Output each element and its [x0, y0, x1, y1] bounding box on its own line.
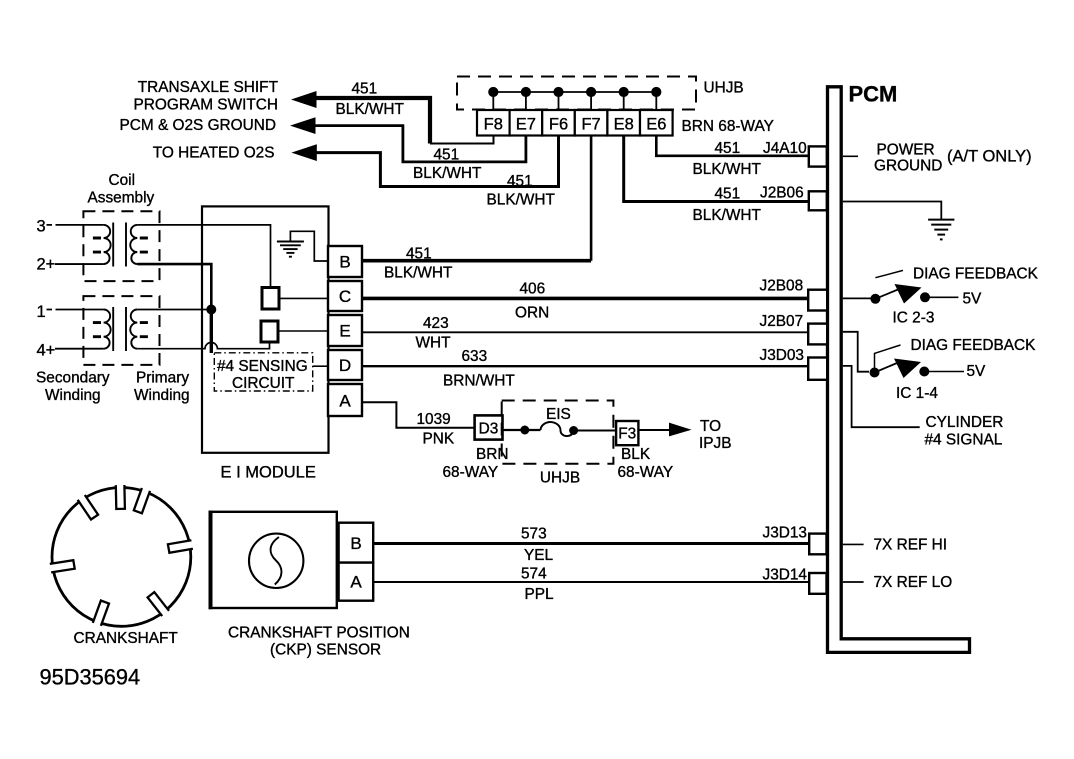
node dot left	[870, 294, 880, 304]
svg-text:BLK/WHT: BLK/WHT	[693, 207, 762, 224]
arrow to transaxle shift program switch	[291, 91, 317, 108]
svg-text:Coil: Coil	[109, 172, 136, 189]
svg-text:BRN/WHT: BRN/WHT	[443, 373, 515, 390]
svg-text:ORN: ORN	[515, 305, 549, 322]
svg-text:D: D	[339, 356, 351, 375]
core lines (upper)	[112, 223, 114, 267]
wire junction down to #4 sensing circuit	[210, 310, 213, 354]
wire 3 to secondary winding	[47, 224, 104, 226]
svg-text:451: 451	[507, 173, 533, 190]
svg-text:BLK/WHT: BLK/WHT	[487, 192, 556, 209]
wire 451 from E7 to PCM & O2S ground arrow	[314, 126, 526, 162]
svg-text:PNK: PNK	[423, 431, 455, 448]
svg-text:F8: F8	[484, 116, 503, 134]
wire driver 2 to E	[278, 330, 328, 332]
svg-text:PCM: PCM	[849, 82, 898, 107]
svg-text:574: 574	[521, 566, 547, 583]
svg-text:J4A10: J4A10	[763, 140, 807, 157]
svg-text:BLK/WHT: BLK/WHT	[693, 161, 762, 178]
svg-text:EIS: EIS	[546, 406, 571, 423]
svg-text:7X REF LO: 7X REF LO	[874, 574, 953, 591]
svg-text:CYLINDER: CYLINDER	[926, 414, 1004, 431]
secondary winding (upper)	[104, 225, 111, 264]
svg-text:Primary: Primary	[136, 370, 189, 387]
crankshaft reluctor wheel	[52, 488, 191, 627]
fuse terminal D3	[475, 415, 503, 439]
svg-text:C: C	[339, 287, 351, 306]
svg-text:Winding: Winding	[45, 387, 101, 404]
IC 1-4 node dot left	[870, 368, 880, 378]
svg-text:CRANKSHAFT: CRANKSHAFT	[74, 630, 179, 647]
svg-text:(A/T ONLY): (A/T ONLY)	[947, 148, 1032, 166]
node dot right	[919, 367, 929, 377]
connector J2B06	[809, 191, 827, 210]
svg-text:F6: F6	[549, 116, 568, 134]
wheel slot 6	[93, 601, 109, 626]
wire 4+ primary with hop to driver 2	[137, 342, 269, 349]
coil driver 1	[262, 288, 279, 310]
primary winding (upper)	[130, 225, 137, 264]
terminal C	[328, 281, 362, 311]
wire 1 primary to junction dot	[137, 309, 211, 311]
svg-text:PCM & O2S GROUND: PCM & O2S GROUND	[120, 117, 277, 134]
wire 3 primary to EI module driver	[137, 225, 270, 288]
terminal E	[328, 315, 362, 346]
svg-text:IC 1-4: IC 1-4	[896, 385, 938, 402]
wire 451 from F6 to heated O2S arrow	[315, 134, 559, 187]
fuse terminal F3	[616, 421, 638, 445]
svg-text:BLK: BLK	[621, 446, 651, 463]
wire driver 1 to C	[279, 297, 328, 299]
svg-text:633: 633	[462, 348, 488, 365]
svg-text:J2B06: J2B06	[760, 185, 804, 202]
bus wire joining connector dots	[493, 91, 656, 93]
wire 1039 A to D3	[362, 402, 475, 427]
coil assembly 2 dashed box	[83, 296, 159, 365]
svg-text:TRANSAXLE SHIFT: TRANSAXLE SHIFT	[138, 79, 279, 96]
connector J4A10	[809, 146, 827, 166]
wire 2+ to secondary winding	[55, 263, 104, 265]
PCM outline	[828, 87, 970, 653]
wheel slot 2	[134, 488, 150, 513]
svg-text:F3: F3	[618, 426, 636, 443]
svg-text:WHT: WHT	[416, 335, 452, 352]
svg-text:BLK/WHT: BLK/WHT	[384, 265, 453, 282]
svg-text:Winding: Winding	[134, 387, 190, 404]
ground symbol (EI module)	[277, 242, 304, 257]
wire 4+ to secondary winding	[55, 348, 104, 350]
wheel slot 4	[78, 495, 98, 520]
svg-text:A: A	[350, 573, 362, 592]
driver triangle IC 2-3	[895, 284, 922, 304]
svg-text:CRANKSHAFT POSITION: CRANKSHAFT POSITION	[228, 625, 410, 642]
svg-text:95D35694: 95D35694	[40, 665, 141, 690]
switch lever mark	[875, 270, 903, 277]
node dot right	[920, 292, 930, 302]
arrow to PCM & O2S ground	[290, 117, 316, 134]
wire 406 C to J2B08	[362, 297, 808, 301]
svg-text:1039: 1039	[417, 411, 451, 428]
wheel slot 1	[116, 485, 125, 509]
svg-text:#4 SIGNAL: #4 SIGNAL	[925, 432, 1003, 449]
wire 423 E to J2B07	[362, 331, 808, 333]
svg-text:B: B	[339, 253, 350, 272]
svg-text:DIAG FEEDBACK: DIAG FEEDBACK	[913, 266, 1039, 283]
svg-text:GROUND: GROUND	[874, 158, 942, 175]
wire J2B07 to IC 1-4	[843, 332, 869, 372]
svg-text:PPL: PPL	[525, 586, 555, 603]
primary winding (lower)	[130, 310, 137, 349]
svg-text:Secondary: Secondary	[36, 370, 110, 387]
terminal A	[328, 384, 362, 416]
driver triangle IC 1-4	[894, 359, 921, 379]
svg-text:#4 SENSING: #4 SENSING	[217, 358, 308, 375]
svg-text:E8: E8	[614, 116, 634, 134]
svg-text:5V: 5V	[963, 291, 983, 308]
svg-text:3: 3	[37, 218, 46, 236]
terminal B	[328, 246, 362, 277]
CKP sine squiggle	[271, 537, 282, 585]
wire to 5V	[925, 296, 958, 298]
svg-text:E6: E6	[646, 116, 666, 134]
svg-text:406: 406	[520, 281, 546, 298]
wheel slot 5	[50, 560, 75, 572]
stub 7X REF HI	[843, 543, 864, 545]
svg-text:451: 451	[434, 147, 460, 164]
svg-text:451: 451	[406, 246, 432, 263]
junction dot node	[206, 305, 216, 315]
wire J3D03 to cylinder #4 signal	[843, 366, 920, 427]
EI module box	[202, 206, 329, 452]
svg-text:J2B08: J2B08	[760, 278, 804, 295]
core lines (lower)	[112, 307, 114, 351]
svg-text:E I MODULE: E I MODULE	[221, 464, 316, 482]
wire 451 E8 to J2B06	[624, 136, 809, 202]
CKP terminal B	[339, 523, 374, 563]
IC 2-3 driver circuit	[843, 297, 872, 299]
arrow to IPJB	[669, 423, 692, 437]
svg-text:BRN 68-WAY: BRN 68-WAY	[682, 118, 774, 135]
svg-text:451: 451	[715, 186, 741, 203]
svg-text:J3D13: J3D13	[763, 525, 808, 542]
svg-text:F7: F7	[581, 116, 600, 134]
UHJB top dashed box	[457, 77, 696, 110]
#4 sensing circuit dashed box	[214, 353, 312, 391]
svg-text:573: 573	[521, 526, 547, 543]
connector J3D14	[809, 573, 826, 594]
svg-text:68-WAY: 68-WAY	[618, 464, 674, 481]
switch arm	[875, 290, 898, 299]
svg-text:A: A	[339, 392, 351, 411]
CKP sensor box	[210, 512, 337, 608]
terminal D	[328, 350, 362, 380]
svg-text:4+: 4+	[37, 342, 56, 360]
svg-text:B: B	[350, 534, 361, 553]
wire 1 to secondary winding	[47, 309, 104, 311]
svg-text:BLK/WHT: BLK/WHT	[336, 101, 405, 118]
svg-text:5V: 5V	[967, 363, 987, 380]
fuse EIS element	[503, 429, 541, 431]
svg-text:7X REF HI: 7X REF HI	[874, 537, 948, 554]
wire J2B06 to ground	[843, 202, 942, 220]
svg-text:1: 1	[37, 303, 46, 321]
svg-text:BRN: BRN	[476, 446, 509, 463]
wire 573 B to J3D13	[373, 542, 809, 545]
svg-text:CIRCUIT: CIRCUIT	[232, 375, 295, 392]
terminal boxes F8 E7 F6 F7 E8 E6	[477, 110, 673, 136]
switch arm	[875, 363, 898, 373]
svg-text:(CKP) SENSOR: (CKP) SENSOR	[270, 642, 381, 659]
svg-text:68-WAY: 68-WAY	[443, 464, 499, 481]
svg-text:DIAG FEEDBACK: DIAG FEEDBACK	[911, 337, 1037, 354]
connector J2B08	[808, 290, 827, 311]
svg-text:UHJB: UHJB	[704, 80, 744, 97]
wire 574 A to J3D14	[373, 581, 809, 583]
svg-text:E: E	[339, 322, 350, 341]
svg-text:BLK/WHT: BLK/WHT	[413, 165, 482, 182]
svg-text:POWER: POWER	[877, 142, 935, 159]
UHJB dashed box (EIS fuse)	[502, 401, 614, 464]
ground wire from B terminal	[290, 231, 328, 261]
connector J2B07	[808, 324, 827, 345]
switch lever mark	[875, 345, 901, 369]
svg-text:PROGRAM SWITCH: PROGRAM SWITCH	[134, 97, 279, 114]
CKP sensor circle	[249, 534, 303, 588]
svg-text:2+: 2+	[37, 256, 56, 274]
svg-text:IC 2-3: IC 2-3	[893, 310, 935, 327]
coil driver 2	[261, 321, 278, 342]
ground symbol (PCM)	[928, 220, 954, 240]
svg-text:451: 451	[352, 81, 378, 98]
svg-text:YEL: YEL	[524, 547, 554, 564]
stub power ground	[843, 155, 858, 157]
connector J3D13	[809, 534, 826, 555]
svg-text:TO HEATED O2S: TO HEATED O2S	[153, 145, 275, 162]
stub 7X REF LO	[843, 581, 864, 583]
svg-text:J2B07: J2B07	[760, 313, 804, 330]
svg-text:J3D03: J3D03	[760, 347, 805, 364]
svg-text:E7: E7	[516, 116, 536, 134]
wire 451 from F8 to transaxle arrow	[314, 98, 430, 144]
svg-text:UHJB: UHJB	[540, 470, 580, 487]
wire 451 B to F7	[362, 259, 591, 263]
wheel slot 3	[168, 540, 193, 553]
wire 451 E6 to J4A10	[656, 136, 809, 156]
arrow to heated O2S	[291, 144, 316, 161]
connector J3D03	[808, 358, 827, 380]
svg-text:IPJB: IPJB	[699, 435, 732, 452]
svg-text:D3: D3	[479, 421, 499, 438]
CKP terminal A	[339, 563, 374, 601]
wheel slot 7	[148, 592, 169, 616]
secondary winding (lower)	[104, 310, 111, 349]
svg-text:423: 423	[423, 315, 449, 332]
wire F3 to IPJB arrow	[638, 429, 670, 431]
svg-text:451: 451	[715, 140, 741, 157]
wire sensing circuit to D	[313, 365, 328, 367]
wire F7 down to B wire	[590, 136, 593, 261]
wire 633 D to J3D03	[362, 365, 808, 367]
junction dots and stubs F8 E7 F6 F7 E8 E6	[489, 88, 660, 110]
wire to 5V	[924, 371, 964, 373]
wire 2+ primary into EI module	[137, 264, 211, 309]
label TRANSAXLE SHIFT PROGRAM SWITCH	[120, 79, 279, 162]
svg-text:Assembly: Assembly	[88, 190, 155, 207]
svg-text:TO: TO	[700, 418, 721, 435]
coil assembly 1 dashed box	[83, 211, 159, 281]
